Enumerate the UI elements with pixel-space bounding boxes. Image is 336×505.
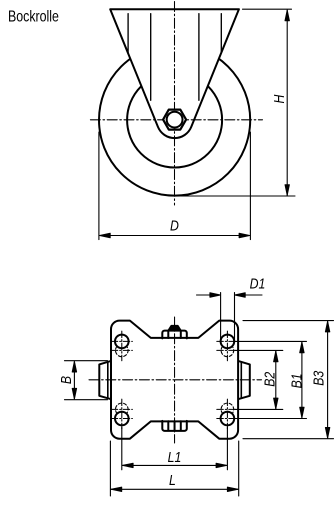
svg-text:B: B [58,376,74,384]
fork bracket (front view) [110,9,239,138]
dimension D1 arrows [197,294,221,296]
wheel tread left (top view) [99,361,110,399]
dimension L extension lines [109,441,111,496]
dimension L line [111,488,238,490]
axle hex nut [163,110,186,130]
svg-text:Bockrolle: Bockrolle [8,7,59,25]
svg-text:D: D [170,218,179,234]
mounting hole bottom-right [221,412,235,426]
vertical center line (top view) [174,317,176,443]
dimension D1 extension lines [220,293,222,341]
dimension B extension lines [65,360,108,362]
horizontal center line (front view) [90,119,262,121]
fork leg edge lines [127,14,129,54]
wheel middle circle (hub flange) [127,73,222,168]
wheel shoulder line right [240,362,242,398]
mounting hole bottom-left [115,412,129,426]
dimension H line [286,10,288,195]
dimension B1 line [301,342,303,418]
fork leg section top (with nut cap) [168,326,181,331]
dimension B3 extension lines [243,320,334,322]
dimension B1 extension lines [235,340,307,342]
wheel shoulder line left [107,362,109,398]
svg-text:B2: B2 [261,371,277,386]
dimension D extension lines [98,132,100,240]
dimension L1 extension lines [121,428,123,470]
dimension B2 line [275,351,277,409]
dimension H extension lines [243,8,292,10]
vertical center line (front view) [174,2,176,206]
wheel tread right (top view) [239,361,250,399]
dimension L1 line [123,464,227,466]
horizontal center line (top view) [89,379,262,381]
dimension D line [100,235,250,237]
svg-text:L1: L1 [168,449,182,465]
dimension B line [73,362,75,399]
svg-text:D1: D1 [250,275,266,291]
svg-text:H: H [271,94,287,103]
dimension B3 line [327,321,329,438]
axle bolt circle [167,112,183,128]
svg-text:B1: B1 [288,373,304,388]
fork leg section bottom [162,421,187,431]
mounting plate outline (top view) [111,321,238,439]
svg-text:L: L [169,472,176,488]
svg-text:B3: B3 [310,370,326,385]
wheel outer circle (front view) [99,44,250,195]
mounting hole top-left [115,335,129,349]
dimension B2 extension lines [235,349,283,351]
mounting hole top-right [221,335,235,349]
